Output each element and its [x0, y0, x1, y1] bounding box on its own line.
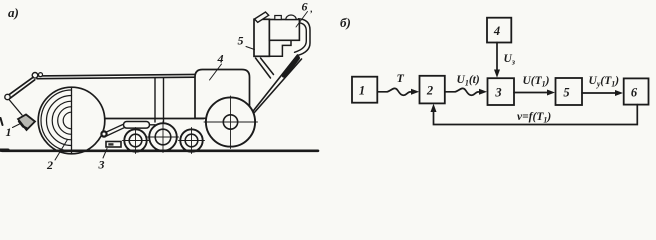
pickup arm (double link) — [8, 77, 33, 95]
block 6 — [624, 78, 649, 104]
body bottom line — [99, 118, 204, 120]
taper link upper — [106, 124, 125, 133]
stairs — [269, 40, 291, 56]
sensor box 3 — [106, 142, 121, 148]
wire 2-3 wavy — [445, 88, 480, 95]
bale vertical diameter — [71, 87, 73, 154]
cap small rect — [275, 16, 282, 20]
svg-text:U(T1): U(T1) — [523, 75, 550, 89]
cab lid — [255, 12, 269, 22]
body column — [154, 78, 156, 122]
bale arc r25 — [46, 95, 71, 145]
taper link lower — [106, 127, 125, 136]
bale arc r19.3 — [52, 101, 71, 140]
bale circle 2 — [38, 87, 105, 154]
wire 5-6 — [582, 92, 616, 94]
cap dome — [286, 15, 296, 20]
block 1 — [352, 77, 377, 103]
bale arc r8.3 — [63, 112, 71, 129]
small wheel A — [124, 129, 146, 151]
chute black belt — [284, 58, 298, 75]
wire 3-5 — [514, 92, 548, 94]
small wheel B — [149, 123, 177, 151]
svg-text:,: , — [310, 4, 313, 14]
cab box 6 — [269, 20, 299, 41]
arm joint circle — [5, 94, 10, 99]
chute lower rail — [254, 59, 302, 114]
big wheel — [206, 97, 255, 146]
machine roof line — [37, 74, 196, 76]
svg-text:1: 1 — [6, 125, 12, 139]
block 2 — [420, 76, 445, 104]
block 4 — [487, 18, 511, 43]
wire 4-3 — [496, 43, 498, 71]
block 3 — [488, 78, 515, 105]
svg-text:5: 5 — [563, 86, 569, 100]
svg-text:а): а) — [8, 5, 19, 20]
svg-text:4: 4 — [493, 24, 500, 38]
svg-text:3: 3 — [98, 158, 105, 172]
svg-text:2: 2 — [46, 158, 53, 172]
block 5 — [556, 78, 583, 105]
svg-text:3: 3 — [494, 86, 501, 100]
container 4 — [195, 70, 250, 119]
svg-text:4: 4 — [217, 52, 224, 66]
cab box 5 — [254, 19, 269, 56]
cab support legs — [256, 58, 271, 78]
chute frame outer curve — [298, 19, 311, 56]
bale arc r30.5 — [41, 90, 72, 151]
svg-text:1: 1 — [359, 84, 365, 98]
svg-text:5: 5 — [238, 34, 244, 48]
sensor head 1 — [18, 115, 35, 131]
svg-text:T: T — [397, 71, 405, 85]
wire 1-2 wavy — [378, 88, 413, 95]
bale arc r13.8 — [58, 107, 72, 135]
chute upper rail — [252, 55, 298, 113]
chute frame inner curve — [295, 23, 307, 53]
cylinder bar — [124, 122, 150, 129]
sensor link — [9, 100, 22, 116]
svg-text:2: 2 — [426, 84, 433, 98]
small wheel C — [180, 129, 202, 151]
feedback wire — [434, 105, 638, 125]
svg-text:6: 6 — [302, 0, 308, 14]
pivot circle — [101, 131, 106, 136]
ground line — [2, 150, 318, 153]
scan edge mark — [1, 118, 3, 125]
svg-text:Uу(T1): Uу(T1) — [589, 75, 620, 89]
svg-text:U1(t): U1(t) — [457, 74, 480, 88]
svg-text:6: 6 — [631, 86, 638, 100]
svg-text:б): б) — [340, 15, 351, 30]
roof left joint circles — [32, 73, 38, 79]
